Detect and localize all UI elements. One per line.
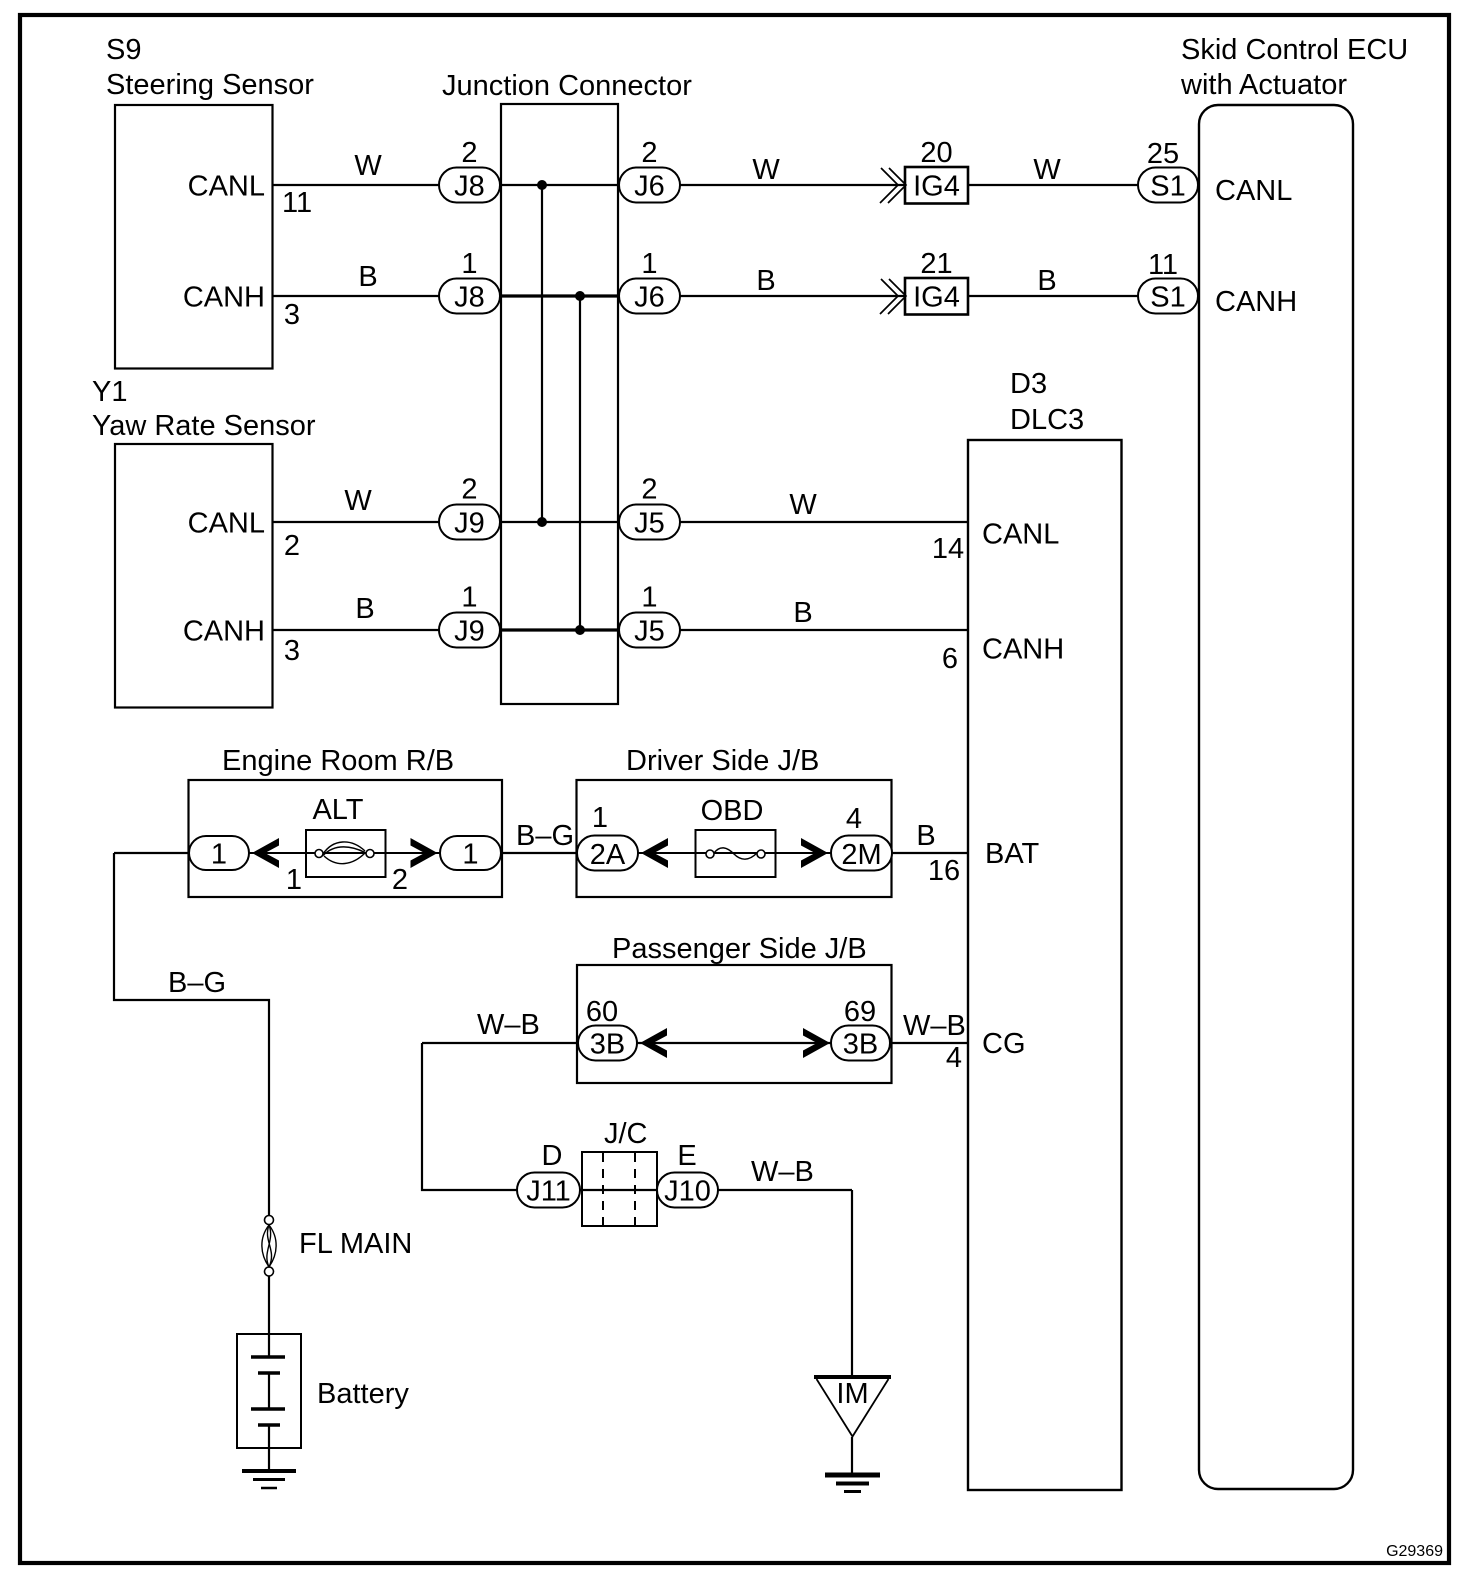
svg-text:CANH: CANH — [1215, 286, 1297, 318]
svg-text:J/C: J/C — [604, 1118, 648, 1150]
svg-text:B: B — [355, 593, 374, 625]
svg-text:1: 1 — [286, 864, 302, 896]
svg-text:1: 1 — [592, 802, 608, 834]
svg-text:21: 21 — [920, 248, 952, 280]
svg-text:FL MAIN: FL MAIN — [299, 1228, 412, 1260]
svg-text:3B: 3B — [843, 1029, 878, 1061]
svg-text:CANH: CANH — [183, 282, 265, 314]
svg-text:2: 2 — [284, 530, 300, 562]
svg-text:CANL: CANL — [982, 519, 1059, 551]
svg-text:J6: J6 — [634, 282, 665, 314]
svg-text:Engine Room R/B: Engine Room R/B — [222, 745, 454, 777]
svg-text:6: 6 — [942, 643, 958, 675]
svg-text:J8: J8 — [454, 171, 485, 203]
svg-text:J11: J11 — [526, 1176, 571, 1208]
svg-text:1: 1 — [641, 248, 657, 280]
svg-text:11: 11 — [282, 187, 312, 219]
svg-text:ALT: ALT — [312, 794, 363, 826]
svg-text:IG4: IG4 — [913, 282, 960, 314]
svg-text:S1: S1 — [1150, 282, 1185, 314]
svg-text:Passenger Side J/B: Passenger Side J/B — [612, 933, 867, 965]
svg-text:W: W — [789, 489, 817, 521]
svg-text:B: B — [1037, 265, 1056, 297]
svg-text:3B: 3B — [590, 1029, 625, 1061]
svg-text:14: 14 — [932, 533, 964, 565]
svg-text:J10: J10 — [664, 1176, 711, 1208]
svg-text:B: B — [916, 820, 935, 852]
svg-text:CANL: CANL — [188, 171, 265, 203]
svg-text:IM: IM — [836, 1378, 868, 1410]
svg-text:J6: J6 — [634, 171, 665, 203]
svg-text:B: B — [756, 265, 775, 297]
svg-text:11: 11 — [1148, 249, 1178, 281]
svg-text:W: W — [344, 485, 372, 517]
svg-text:16: 16 — [928, 855, 960, 887]
svg-text:CANH: CANH — [183, 616, 265, 648]
svg-text:J5: J5 — [634, 616, 665, 648]
svg-text:Battery: Battery — [317, 1378, 409, 1410]
svg-text:1: 1 — [461, 248, 477, 280]
svg-text:J8: J8 — [454, 282, 485, 314]
svg-text:2: 2 — [392, 864, 408, 896]
svg-text:D: D — [542, 1140, 563, 1172]
svg-text:CANL: CANL — [188, 508, 265, 540]
svg-text:B: B — [358, 261, 377, 293]
svg-text:Junction Connector: Junction Connector — [442, 70, 692, 102]
svg-text:1: 1 — [462, 839, 478, 871]
svg-text:3: 3 — [284, 299, 300, 331]
svg-text:2: 2 — [461, 474, 477, 506]
svg-text:2: 2 — [461, 137, 477, 169]
svg-text:B: B — [793, 597, 812, 629]
svg-text:1: 1 — [211, 839, 227, 871]
svg-text:Driver Side J/B: Driver Side J/B — [626, 745, 819, 777]
svg-text:D3: D3 — [1010, 368, 1047, 400]
svg-text:4: 4 — [946, 1042, 962, 1074]
svg-text:DLC3: DLC3 — [1010, 404, 1084, 436]
svg-text:CG: CG — [982, 1028, 1026, 1060]
svg-text:Skid Control ECU: Skid Control ECU — [1181, 34, 1408, 66]
svg-text:W–B: W–B — [903, 1010, 966, 1042]
svg-text:J5: J5 — [634, 508, 665, 540]
svg-text:2: 2 — [641, 137, 657, 169]
svg-text:2M: 2M — [841, 839, 881, 871]
svg-text:E: E — [677, 1140, 696, 1172]
svg-text:with Actuator: with Actuator — [1180, 69, 1347, 101]
svg-text:W: W — [1033, 154, 1061, 186]
svg-text:OBD: OBD — [701, 795, 764, 827]
svg-text:J9: J9 — [454, 508, 485, 540]
svg-text:1: 1 — [641, 582, 657, 614]
svg-text:Yaw Rate Sensor: Yaw Rate Sensor — [92, 410, 316, 442]
svg-text:BAT: BAT — [985, 838, 1040, 870]
svg-text:Y1: Y1 — [92, 376, 127, 408]
svg-text:3: 3 — [284, 635, 300, 667]
svg-text:2: 2 — [641, 474, 657, 506]
svg-text:4: 4 — [846, 803, 862, 835]
svg-text:1: 1 — [461, 582, 477, 614]
svg-text:CANL: CANL — [1215, 175, 1292, 207]
svg-text:25: 25 — [1147, 138, 1179, 170]
svg-text:G29369: G29369 — [1386, 1543, 1443, 1560]
svg-text:CANH: CANH — [982, 634, 1064, 666]
svg-text:69: 69 — [844, 996, 876, 1028]
svg-text:20: 20 — [920, 137, 952, 169]
svg-text:W: W — [752, 154, 780, 186]
svg-text:60: 60 — [586, 996, 618, 1028]
svg-text:J9: J9 — [454, 616, 485, 648]
svg-text:IG4: IG4 — [913, 171, 960, 203]
svg-text:B–G: B–G — [516, 820, 574, 852]
svg-text:S1: S1 — [1150, 171, 1185, 203]
svg-text:B–G: B–G — [168, 967, 226, 999]
svg-text:W–B: W–B — [751, 1156, 814, 1188]
svg-text:S9: S9 — [106, 34, 141, 66]
svg-text:Steering Sensor: Steering Sensor — [106, 69, 314, 101]
svg-text:2A: 2A — [590, 839, 626, 871]
svg-text:W–B: W–B — [477, 1009, 540, 1041]
svg-text:W: W — [354, 150, 382, 182]
